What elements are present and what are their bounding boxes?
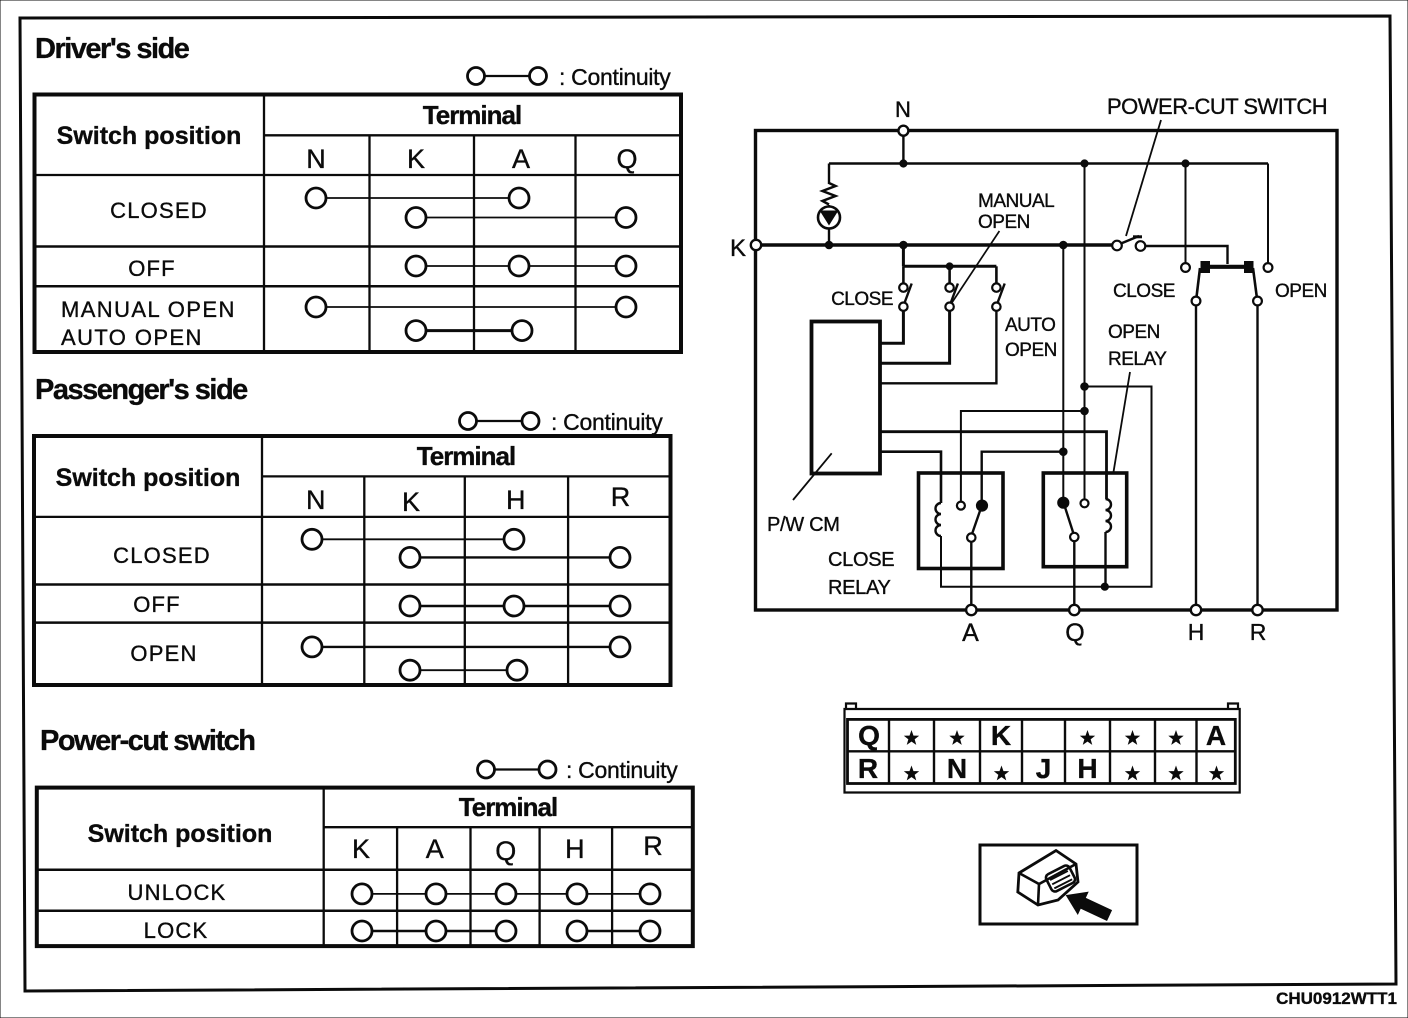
rocker left tip — [1201, 262, 1210, 273]
terminal A circle — [966, 605, 976, 615]
junction on top bus x1185 — [1182, 160, 1189, 167]
svg-text:AUTO OPEN: AUTO OPEN — [61, 325, 203, 350]
junction K bus x1063 — [1060, 241, 1068, 249]
terminal K circle — [751, 240, 761, 250]
svg-text:R: R — [643, 831, 663, 861]
wiring diagram enclosure box — [756, 131, 1338, 611]
svg-text:LOCK: LOCK — [144, 918, 209, 943]
svg-text:K: K — [352, 834, 370, 864]
table 1 driver's side grid — [35, 95, 682, 353]
table 3 continuity LOCK K-A-Q — [352, 921, 516, 941]
svg-text:OFF: OFF — [133, 592, 181, 617]
table 1 continuity AUTO K-A — [406, 321, 532, 341]
wire coil return path — [941, 387, 1152, 587]
switch AUTO symbol — [992, 283, 1005, 311]
svg-text:P/W CM: P/W CM — [767, 514, 840, 536]
rocker left fixed contact — [1181, 263, 1190, 272]
relay 3d sketch silhouette — [1018, 851, 1078, 906]
svg-text:: Continuity: : Continuity — [551, 409, 663, 435]
wire power-cut to rocker — [1146, 246, 1228, 264]
junction on top bus below N — [900, 160, 907, 167]
svg-text:POWER-CUT SWITCH: POWER-CUT SWITCH — [1107, 94, 1327, 119]
power-cut switch contacts — [1112, 236, 1145, 251]
svg-text:H: H — [1077, 753, 1097, 784]
svg-text:OPEN: OPEN — [978, 212, 1030, 233]
svg-text:Power-cut switch: Power-cut switch — [40, 725, 255, 757]
continuity legend 3 — [478, 761, 557, 778]
svg-text:Switch position: Switch position — [57, 122, 242, 150]
continuity legend 2 — [460, 413, 540, 430]
svg-text:CLOSED: CLOSED — [113, 543, 211, 568]
leader P/W CM — [793, 453, 832, 500]
relay connector grille — [1045, 864, 1077, 893]
switch CLOSE drop — [902, 266, 905, 284]
close relay contacts — [957, 501, 987, 542]
svg-text:R: R — [1250, 619, 1267, 645]
svg-text:RELAY: RELAY — [828, 577, 891, 599]
svg-text:OPEN: OPEN — [1108, 322, 1160, 343]
svg-text:Switch position: Switch position — [56, 464, 241, 492]
table 3 continuity UNLOCK K-A-Q-H-R — [352, 884, 660, 904]
junction x1084 y385 — [1081, 383, 1089, 391]
rocker right fixed contact — [1264, 263, 1273, 272]
rocker fixed contact right riser — [1267, 164, 1269, 264]
table 1 continuity CLOSED N-A — [306, 188, 529, 208]
leader open relay — [1114, 372, 1131, 472]
switch CLOSE symbol — [899, 283, 912, 311]
svg-text:K: K — [402, 487, 420, 517]
connector pin stars row 2 — [905, 767, 1223, 779]
svg-text:N: N — [947, 753, 967, 784]
wire CLOSE switch to P/W CM — [880, 311, 903, 343]
wire MANUAL switch to P/W CM — [880, 311, 950, 363]
svg-text:Terminal: Terminal — [417, 441, 515, 471]
switch MANUAL drop — [948, 266, 951, 284]
wire top bus — [829, 162, 1268, 164]
svg-text:N: N — [306, 144, 326, 174]
svg-text:OFF: OFF — [128, 256, 176, 281]
svg-text:Q: Q — [616, 144, 637, 174]
open relay contacts — [1058, 498, 1088, 542]
svg-text:: Continuity: : Continuity — [559, 64, 671, 90]
junction driver bus x949 — [946, 263, 953, 270]
junction on top bus x1084 — [1081, 160, 1088, 167]
svg-text:Switch position: Switch position — [88, 820, 273, 848]
connector pinout grid — [848, 719, 1236, 783]
wire rocker to R — [1256, 305, 1258, 608]
svg-text:OPEN: OPEN — [130, 641, 197, 666]
svg-text:OPEN: OPEN — [1005, 340, 1057, 361]
open relay box — [1043, 473, 1126, 567]
svg-text:CLOSE: CLOSE — [828, 549, 894, 571]
svg-text:OPEN: OPEN — [1275, 281, 1327, 302]
close relay coil — [936, 503, 942, 536]
power window rocker: fixed contact left riser — [1185, 164, 1187, 264]
terminal H circle — [1191, 605, 1201, 615]
wire riser close relay NO contact — [981, 451, 983, 502]
wire resistor branch vertical — [828, 164, 830, 185]
wire open relay coil return — [1104, 532, 1106, 587]
connector pin stars row 1 — [905, 732, 1182, 744]
terminal R circle — [1252, 605, 1262, 615]
rocker bar — [1202, 265, 1251, 269]
svg-text:R: R — [858, 753, 878, 784]
svg-text:H: H — [565, 834, 585, 864]
svg-text:K: K — [730, 235, 746, 262]
junction coil return x1104 — [1101, 583, 1108, 590]
terminal Q circle — [1069, 605, 1079, 615]
driver switch bus drop — [902, 245, 905, 266]
wire close relay contact to K branch — [982, 451, 1064, 453]
leader manual open — [951, 231, 1000, 305]
junction x1084 y410 — [1081, 407, 1089, 415]
wire K branch down to close relay common — [1062, 245, 1064, 499]
table 2 continuity OPEN N-R — [302, 637, 630, 657]
svg-text:MANUAL: MANUAL — [978, 191, 1054, 212]
table 2 continuity OPEN K-H — [400, 660, 527, 680]
rocker right tip — [1245, 262, 1254, 273]
terminal N circle — [898, 126, 908, 136]
table 2 continuity CLOSED N-H — [302, 529, 524, 549]
junction at x1063 — [1060, 448, 1068, 456]
arrow pointing at relay — [1061, 885, 1114, 927]
svg-text:CLOSED: CLOSED — [110, 198, 208, 223]
svg-text:Passenger's side: Passenger's side — [35, 374, 248, 406]
table 3 continuity LOCK H-R — [567, 921, 660, 941]
wire rocker to H — [1195, 305, 1197, 608]
wire open relay to Q — [1073, 541, 1075, 608]
wire AUTO switch to P/W CM — [880, 311, 996, 383]
table 2 passenger's side grid — [34, 436, 671, 685]
resistor zigzag — [823, 183, 836, 205]
rocker left lower contact — [1192, 297, 1201, 306]
wire relay1 NC riser link — [961, 411, 1085, 505]
driver switch bus — [903, 265, 996, 268]
table 2 continuity OFF K-H-R — [400, 596, 630, 616]
connector pin letters row 2 — [858, 753, 1098, 784]
connector pin letters row 1 — [858, 720, 1226, 751]
svg-text:Terminal: Terminal — [459, 792, 557, 822]
switch AUTO drop — [995, 266, 998, 284]
wire N drop to top bus — [902, 133, 904, 164]
wire close relay to A — [970, 542, 972, 608]
svg-text:A: A — [1206, 720, 1226, 751]
svg-text:Q: Q — [858, 720, 880, 751]
wire P/W CM to open relay coil — [880, 432, 1107, 499]
svg-text:Terminal: Terminal — [423, 100, 521, 130]
svg-text:UNLOCK: UNLOCK — [128, 880, 227, 905]
svg-text:N: N — [895, 97, 911, 122]
svg-text:K: K — [407, 144, 425, 174]
table 1 continuity OFF K-A-Q — [406, 256, 636, 276]
leader line to power-cut switch — [1126, 120, 1161, 236]
lamp symbol — [818, 205, 840, 245]
wire N branch down to open relay common — [1084, 164, 1086, 500]
svg-text:CLOSE: CLOSE — [1113, 281, 1175, 302]
svg-text:H: H — [506, 485, 526, 515]
svg-text:MANUAL OPEN: MANUAL OPEN — [61, 297, 236, 322]
table 3 power-cut switch grid — [37, 788, 693, 947]
continuity legend 1 — [468, 68, 547, 85]
relay 3d sketch inner edges — [1019, 864, 1076, 905]
switch MANUAL symbol — [945, 283, 958, 311]
rocker left blade — [1197, 268, 1201, 297]
junction lamp to K bus — [825, 241, 833, 249]
svg-text:A: A — [962, 619, 979, 647]
svg-text:H: H — [1188, 619, 1205, 645]
close relay box — [919, 473, 1004, 569]
svg-text:CLOSE: CLOSE — [831, 289, 893, 310]
svg-text:CHU0912WTT1: CHU0912WTT1 — [1276, 989, 1397, 1008]
P/W CM box — [812, 322, 881, 474]
svg-text:A: A — [512, 144, 530, 174]
rocker right blade — [1253, 268, 1257, 297]
svg-text:: Continuity: : Continuity — [566, 757, 678, 783]
svg-text:Q: Q — [495, 836, 516, 866]
junction K bus x903 — [900, 241, 908, 249]
svg-text:Driver's side: Driver's side — [35, 33, 190, 65]
wire K bus — [757, 243, 1112, 246]
rocker right lower contact — [1253, 297, 1262, 306]
relay icon box — [980, 845, 1137, 924]
svg-text:AUTO: AUTO — [1005, 315, 1055, 336]
svg-text:A: A — [426, 834, 444, 864]
svg-text:R: R — [611, 482, 631, 512]
svg-text:K: K — [991, 720, 1011, 751]
table 1 continuity CLOSED K-Q — [406, 208, 636, 228]
svg-text:J: J — [1036, 753, 1052, 784]
svg-text:Q: Q — [1065, 619, 1084, 647]
open relay coil — [1106, 499, 1112, 532]
wire P/W CM to close relay coil — [880, 452, 941, 503]
table 2 continuity CLOSED K-R — [400, 547, 630, 567]
svg-text:RELAY: RELAY — [1108, 349, 1167, 370]
svg-text:N: N — [306, 485, 326, 515]
table 1 continuity MANUAL N-Q — [306, 297, 636, 317]
connector pinout outer shell — [845, 704, 1240, 793]
